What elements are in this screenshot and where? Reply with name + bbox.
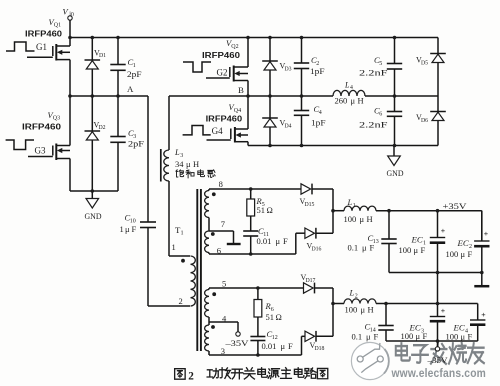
svg-text:μ: μ [125, 224, 130, 234]
svg-text:H: H [193, 159, 199, 169]
svg-text:μ: μ [351, 96, 356, 106]
svg-text:0.1: 0.1 [348, 243, 359, 253]
svg-text:5: 5 [222, 279, 226, 289]
svg-text:3: 3 [221, 346, 225, 356]
svg-text:D18: D18 [314, 346, 324, 352]
svg-text:D3: D3 [284, 66, 291, 72]
svg-text:3: 3 [180, 153, 183, 159]
svg-text:IRFP460: IRFP460 [22, 123, 62, 132]
svg-text:Ω: Ω [267, 205, 273, 215]
svg-text:D4: D4 [284, 123, 291, 129]
svg-text:Q1: Q1 [54, 23, 61, 29]
svg-text:μ: μ [416, 331, 421, 341]
svg-text:μ: μ [281, 341, 286, 351]
svg-text:100: 100 [446, 249, 459, 259]
svg-text:100: 100 [401, 331, 414, 341]
svg-text:8: 8 [219, 179, 223, 189]
svg-text:Q3: Q3 [53, 116, 60, 122]
svg-text:H: H [368, 304, 374, 314]
svg-text:Q2: Q2 [231, 44, 238, 50]
svg-text:Q4: Q4 [234, 108, 241, 114]
svg-text:H: H [358, 96, 364, 106]
svg-text:7: 7 [221, 219, 225, 229]
svg-text:A: A [127, 84, 134, 94]
svg-text:L: L [347, 197, 353, 207]
svg-text:μ: μ [461, 331, 466, 341]
svg-text:D1: D1 [99, 53, 106, 59]
svg-text:G4: G4 [212, 126, 223, 136]
svg-text:F: F [423, 331, 428, 341]
svg-text:+35V: +35V [443, 202, 467, 211]
svg-text:51: 51 [257, 205, 266, 215]
svg-text:B: B [238, 85, 244, 95]
svg-text:D5: D5 [421, 60, 428, 66]
svg-text:0.01: 0.01 [257, 236, 272, 246]
svg-text:F: F [468, 331, 473, 341]
svg-text:GND: GND [85, 212, 102, 221]
svg-text:4: 4 [319, 110, 322, 116]
svg-text:GND: GND [387, 169, 404, 178]
svg-text:in: in [69, 10, 74, 17]
svg-text:1pF: 1pF [310, 66, 325, 76]
svg-text:51: 51 [266, 312, 275, 322]
svg-text:100: 100 [344, 214, 357, 224]
svg-text:EC: EC [457, 238, 469, 248]
svg-text:2: 2 [188, 371, 194, 383]
svg-text:260: 260 [335, 96, 348, 106]
svg-text:6: 6 [217, 246, 221, 256]
svg-text:D2: D2 [98, 125, 105, 131]
svg-text:+: + [481, 310, 486, 319]
svg-text:μ: μ [360, 214, 365, 224]
svg-text:0.01: 0.01 [262, 341, 277, 351]
svg-text:2: 2 [355, 293, 358, 299]
svg-text:12: 12 [272, 335, 278, 341]
svg-text:F: F [468, 249, 473, 259]
svg-text:IRFP460: IRFP460 [202, 51, 241, 60]
svg-text:2pF: 2pF [127, 69, 142, 79]
svg-text:F: F [132, 224, 137, 234]
svg-text:100: 100 [399, 245, 412, 255]
svg-text:2pF: 2pF [128, 139, 144, 149]
svg-text:D17: D17 [305, 278, 315, 284]
svg-text:34: 34 [175, 159, 184, 169]
svg-text:+: + [441, 226, 446, 235]
svg-text:100: 100 [345, 304, 358, 314]
svg-text:6: 6 [379, 111, 382, 117]
svg-text:–35V: –35V [224, 339, 248, 348]
svg-text:D6: D6 [421, 118, 428, 124]
svg-text:F: F [370, 243, 375, 253]
svg-text:F: F [421, 245, 426, 255]
svg-text:2.2nF: 2.2nF [359, 68, 388, 78]
svg-text:0.1: 0.1 [352, 332, 363, 342]
svg-text:L: L [174, 147, 180, 157]
svg-text:G3: G3 [35, 145, 46, 155]
svg-text:μ: μ [186, 159, 191, 169]
svg-text:100: 100 [446, 331, 459, 341]
svg-text:2: 2 [179, 296, 183, 306]
svg-text:+: + [441, 306, 446, 315]
svg-text:+: + [484, 229, 489, 238]
svg-text:1: 1 [120, 224, 124, 234]
svg-text:μ: μ [361, 304, 366, 314]
svg-text:μ: μ [362, 243, 367, 253]
svg-text:H: H [367, 214, 373, 224]
svg-text:1: 1 [172, 242, 176, 252]
svg-text:2.2nF: 2.2nF [359, 119, 388, 129]
svg-text:F: F [374, 332, 379, 342]
svg-text:μ: μ [366, 332, 371, 342]
svg-text:μ: μ [276, 236, 281, 246]
svg-text:EC: EC [411, 235, 423, 245]
svg-text:www.elecfans.com: www.elecfans.com [391, 366, 486, 380]
svg-text:F: F [288, 341, 293, 351]
svg-text:1: 1 [133, 63, 136, 69]
svg-text:G1: G1 [36, 42, 47, 52]
svg-text:μ: μ [461, 249, 466, 259]
svg-text:D15: D15 [304, 202, 314, 208]
svg-text:F: F [283, 236, 288, 246]
svg-text:1: 1 [180, 230, 183, 237]
svg-text:IRFP460: IRFP460 [25, 29, 63, 38]
svg-text:D16: D16 [311, 246, 321, 252]
svg-text:μ: μ [414, 245, 419, 255]
svg-text:L: L [349, 288, 355, 298]
svg-text:G2: G2 [217, 67, 228, 77]
svg-text:–35V: –35V [426, 356, 447, 365]
svg-text:Ω: Ω [276, 312, 282, 322]
svg-text:1pF: 1pF [311, 117, 326, 127]
svg-text:1: 1 [353, 203, 356, 209]
svg-text:5: 5 [379, 61, 382, 67]
svg-text:4: 4 [350, 85, 353, 91]
svg-text:IRFP460: IRFP460 [206, 114, 243, 123]
